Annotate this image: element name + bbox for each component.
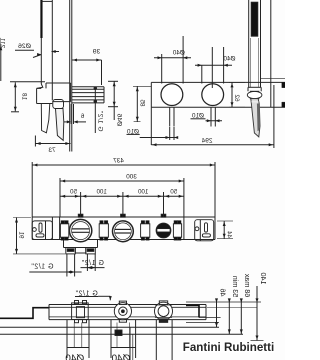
svg-text:Fantini Rubinetti: Fantini Rubinetti: [183, 341, 274, 354]
pipe union fitting D: [173, 221, 181, 241]
dimension Ø26 (wand diameter): [15, 43, 59, 57]
mixer body (side view): [37, 83, 71, 104]
dimension 211 (spout height, edge-cut): [0, 37, 6, 81]
rail inner dividers: [52, 217, 184, 240]
svg-text:300: 300: [126, 173, 137, 180]
dimension 294 (bar width): [151, 85, 274, 148]
svg-text:100: 100: [96, 189, 107, 196]
dimension 44 (rail height): [217, 221, 233, 239]
hand shower wand (front view): [248, 0, 261, 91]
dimension Ø10 (pipe 2): [191, 113, 223, 123]
dimension 39 (pipe length): [72, 49, 102, 86]
svg-text:294: 294: [201, 138, 212, 145]
plan body outline: [0, 305, 206, 320]
svg-text:Ø40: Ø40: [172, 49, 185, 56]
plan valve 2: [114, 301, 131, 322]
svg-text:G 1/2": G 1/2": [31, 264, 54, 271]
dimension 300 (mounting span): [60, 173, 184, 217]
label G 1/2 (plan connection): [75, 290, 112, 300]
dimension 46 (plan depth): [215, 289, 228, 328]
pipe union fitting B: [99, 221, 108, 241]
valve column C (plan): [130, 320, 172, 360]
outlet pipe 1 (front view): [170, 107, 174, 126]
svg-text:85: 85: [139, 99, 146, 107]
svg-text:G 1/2": G 1/2": [81, 260, 104, 267]
wand spray tip (side view): [56, 109, 64, 141]
wall section line (side view): [70, 0, 72, 152]
pipe union fitting C: [141, 221, 150, 241]
pipe union fitting A: [60, 221, 68, 241]
svg-text:62: 62: [233, 94, 240, 102]
dimension 437 (total width): [32, 158, 215, 217]
svg-text:50: 50: [170, 189, 177, 196]
svg-text:Ø46: Ø46: [115, 113, 122, 126]
shower spray head (front view): [251, 99, 260, 137]
svg-text:39: 39: [93, 49, 101, 56]
knob handle 1 (front view): [161, 84, 183, 106]
wall lines (plan view): [0, 327, 243, 334]
dimension 68 max (plan depth): [240, 273, 252, 334]
left mounting bracket: [195, 220, 214, 241]
svg-text:73: 73: [48, 147, 56, 154]
svg-text:Ø40: Ø40: [223, 56, 236, 63]
hand shower wand (side view): [41, 0, 52, 100]
valve 3 (diverter, dark): [156, 214, 171, 238]
shower holder ring (front view): [247, 91, 262, 98]
plan valve 1: [72, 301, 89, 323]
svg-text:50: 50: [70, 189, 77, 196]
svg-text:100: 100: [137, 189, 148, 196]
valve 1 (cartridge): [69, 214, 91, 242]
svg-text:G 1/2": G 1/2": [97, 110, 104, 131]
dimension 62 (bar height, right): [229, 82, 245, 107]
mounting feet: [64, 240, 98, 254]
valve 2 (cartridge): [112, 214, 133, 242]
svg-text:437: 437: [113, 158, 124, 165]
svg-text:140: 140: [259, 273, 268, 285]
valve column A (plan): [65, 320, 89, 360]
inlet stubs below feet: [67, 254, 95, 277]
dimension 85 (bar plus pipes, left): [133, 86, 151, 121]
dimension 91 (rail+foot height): [13, 218, 65, 254]
dimension 53 min (plan depth): [228, 276, 240, 335]
svg-text:Ø26: Ø26: [18, 43, 31, 50]
svg-text:91: 91: [18, 231, 25, 238]
svg-text:211: 211: [0, 37, 6, 48]
lever handle blade (side view): [41, 104, 50, 133]
dimension 6 (wall gap): [64, 104, 87, 124]
valve column B (plan): [111, 320, 136, 360]
dimension Ø10 (pipe 1): [127, 127, 179, 140]
svg-text:53 min: 53 min: [231, 276, 240, 298]
svg-text:18: 18: [20, 93, 27, 100]
svg-text:46: 46: [219, 289, 228, 297]
dimension Ø46 (escutcheon, side view): [108, 81, 122, 126]
bar end cap (edge-cut): [282, 83, 285, 108]
wall bar front view: [151, 0, 285, 107]
dimension Ø40 (knob 1): [154, 36, 191, 84]
knob handle 2 (front view): [202, 84, 224, 106]
shower holder cup (side view): [53, 100, 64, 109]
plan valve 3: [155, 301, 173, 323]
svg-text:6: 6: [80, 113, 84, 120]
svg-text:Ø40: Ø40: [65, 354, 84, 360]
svg-text:Ø40: Ø40: [111, 354, 130, 360]
plan dims extension line: [186, 302, 261, 308]
dimension 18 (body offset): [10, 82, 45, 112]
label G 1/2 (right inlet): [81, 260, 105, 269]
connection pipes through wall (side view): [72, 87, 104, 103]
outlet pipe 2 (front view): [211, 107, 215, 126]
label G 1/2 (pipe thread, side view): [94, 87, 104, 133]
svg-text:44: 44: [225, 231, 232, 238]
dimension row 50-100-100-50: [60, 189, 184, 217]
svg-text:68 max: 68 max: [243, 273, 252, 297]
dimension 140 (total plan depth): [251, 273, 268, 341]
dimension Ø40 (knob 2): [195, 47, 236, 88]
dimension 73 (body depth): [35, 136, 70, 154]
plan body step (right): [186, 306, 221, 323]
right mounting bracket: [32, 221, 52, 240]
rough-in rail body: [32, 217, 215, 240]
label G 1/2 (left inlet): [29, 264, 81, 274]
